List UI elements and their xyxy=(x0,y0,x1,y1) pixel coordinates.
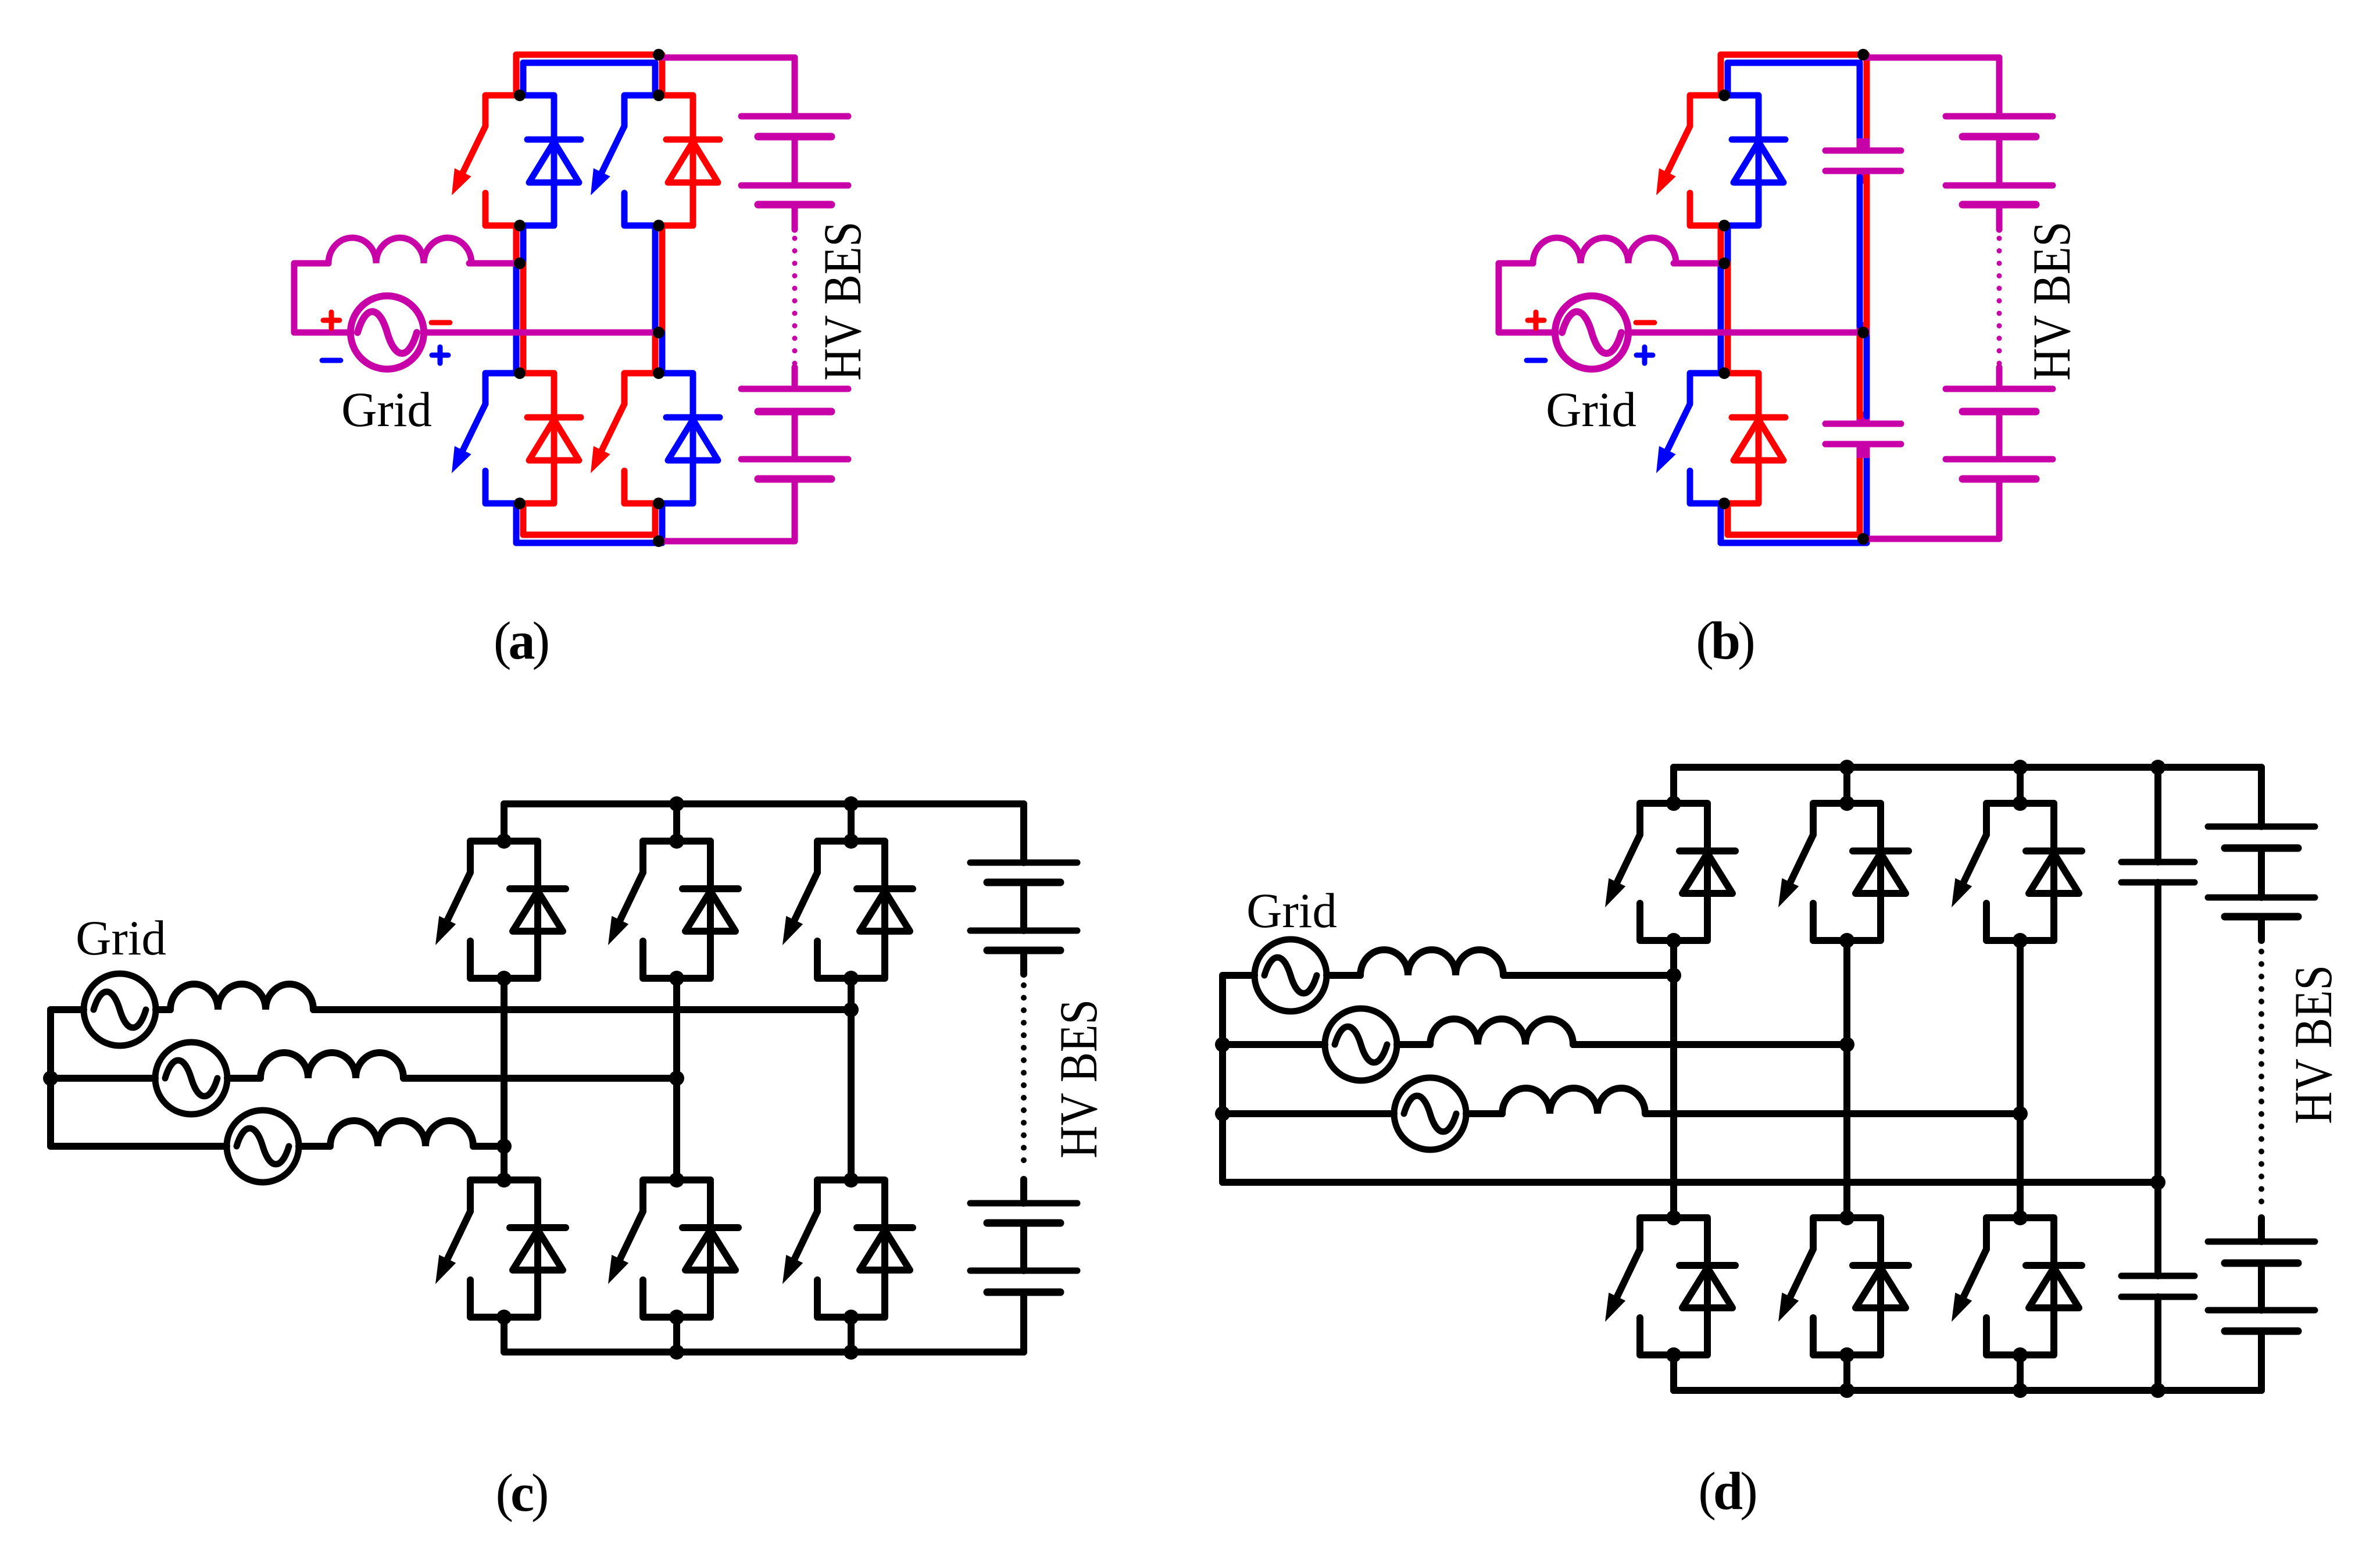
svg-text:HV BES: HV BES xyxy=(2284,965,2343,1124)
svg-text:(c): (c) xyxy=(495,1463,546,1522)
svg-text:(b): (b) xyxy=(1696,611,1753,670)
svg-text:HV BES: HV BES xyxy=(2022,221,2081,381)
svg-text:HV BES: HV BES xyxy=(813,221,872,381)
svg-text:HV BES: HV BES xyxy=(1049,999,1108,1158)
svg-text:Grid: Grid xyxy=(1546,382,1636,437)
svg-text:(d): (d) xyxy=(1698,1461,1756,1521)
svg-text:Grid: Grid xyxy=(1246,884,1337,938)
svg-text:Grid: Grid xyxy=(341,382,432,437)
svg-text:Grid: Grid xyxy=(76,911,166,965)
svg-text:(a): (a) xyxy=(494,611,548,670)
